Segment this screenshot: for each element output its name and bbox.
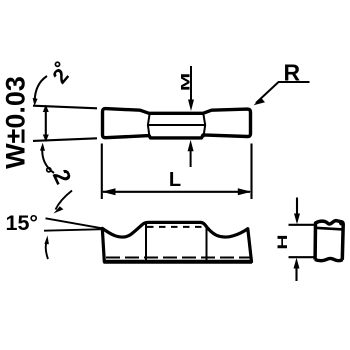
svg-text:L: L xyxy=(169,169,181,191)
svg-text:H: H xyxy=(275,234,291,249)
svg-text:15°: 15° xyxy=(6,211,39,235)
svg-text:M: M xyxy=(178,73,192,91)
svg-text:W±0.03: W±0.03 xyxy=(1,76,31,169)
